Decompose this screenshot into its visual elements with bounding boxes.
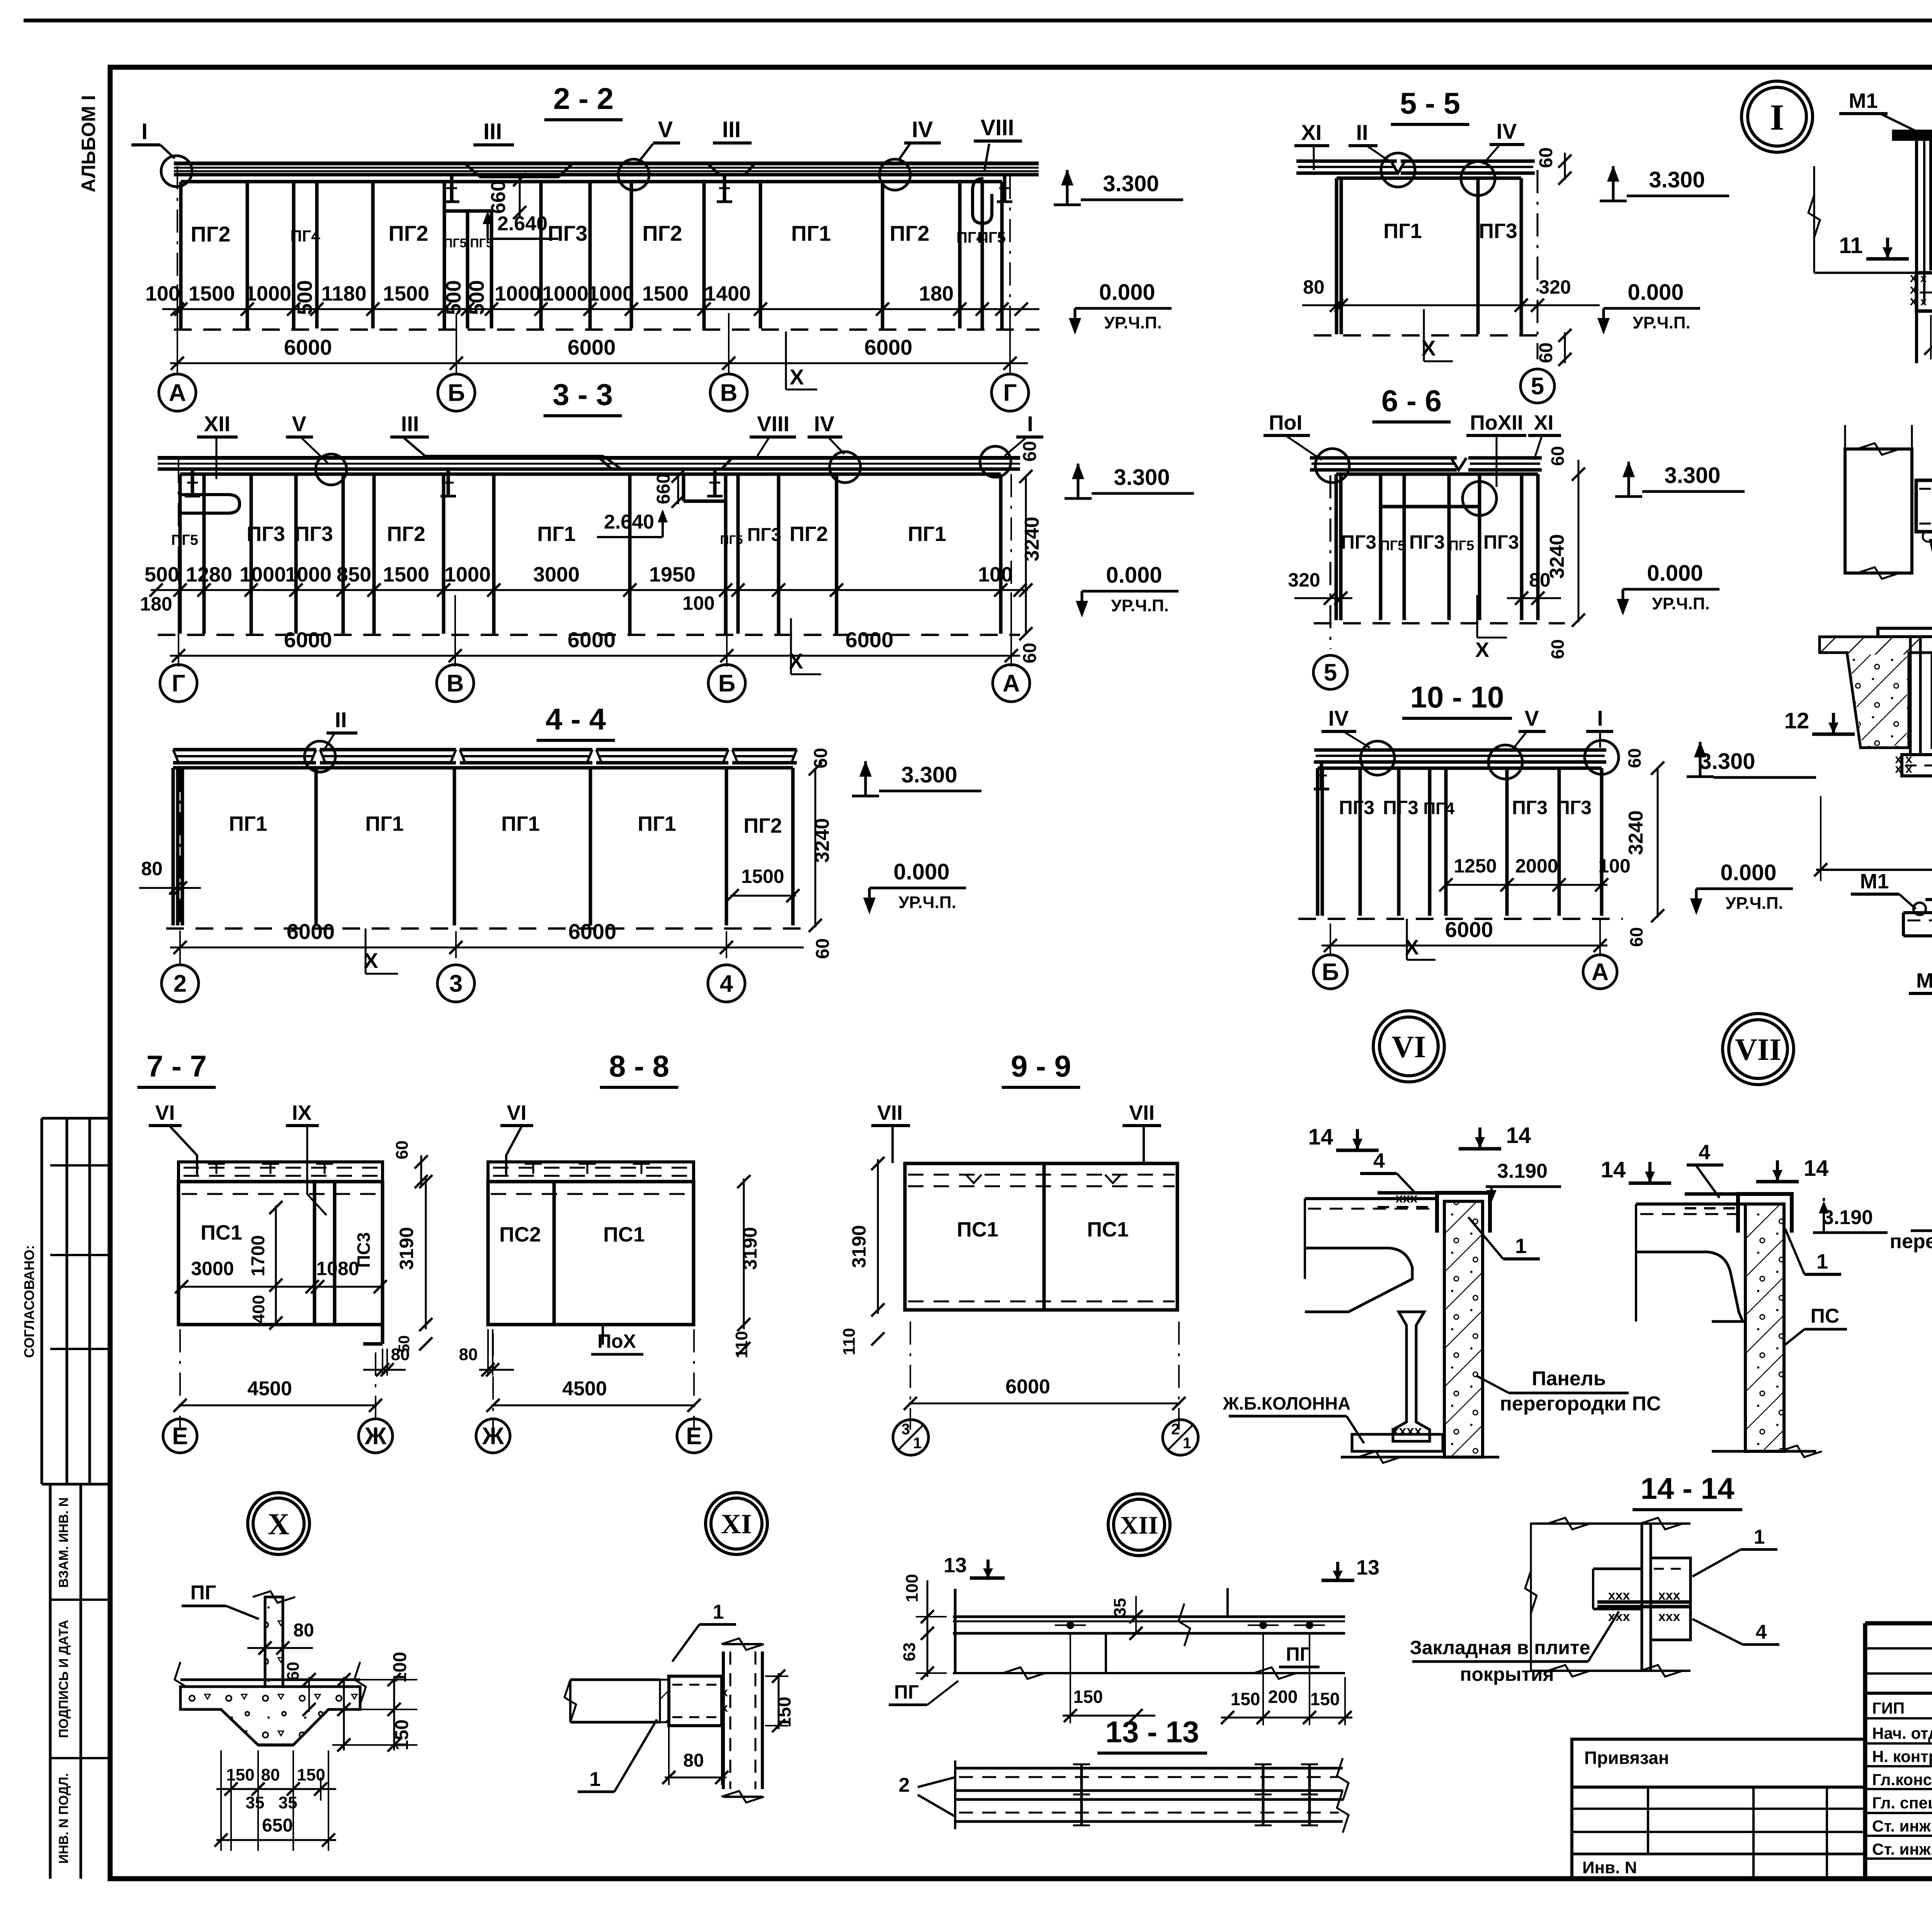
svg-text:x: x [1905,762,1912,776]
svg-text:ПГ3: ПГ3 [294,522,333,546]
svg-text:14: 14 [1506,1123,1531,1148]
svg-text:УР.Ч.П.: УР.Ч.П. [1633,313,1690,332]
svg-text:500: 500 [293,280,316,315]
section 10-10 floor dashed [1298,918,1623,920]
svg-text:9 - 9: 9 - 9 [1011,1049,1071,1083]
grid circle E [163,1419,197,1453]
section 3-3 grid dim line [170,655,1020,657]
svg-text:3000: 3000 [533,563,580,586]
detail III I-beam stem [1909,637,1912,755]
svg-text:XII: XII [204,412,230,436]
grid line G dash-dot [1009,176,1011,373]
svg-text:14 - 14: 14 - 14 [1641,1471,1735,1505]
svg-text:400: 400 [249,1295,268,1323]
detail I level line 3.240 [1814,272,1932,274]
detail X concrete bed [180,1687,360,1745]
svg-text:ПГ2: ПГ2 [743,814,782,837]
svg-text:35: 35 [279,1793,298,1812]
svg-text:100: 100 [390,1652,410,1683]
section 2-2 grid dimension line [170,362,1028,364]
svg-text:2: 2 [173,971,187,997]
detail VI top channel cap [1437,1193,1490,1233]
svg-text:М1: М1 [1849,89,1878,112]
section 6-6 roof beam [1310,456,1457,460]
svg-text:VI: VI [507,1101,526,1124]
svg-text:1000: 1000 [285,563,332,586]
section 3-3 door lintel right [684,500,726,503]
svg-text:ПС1: ПС1 [1087,1218,1129,1241]
svg-text:2000: 2000 [1515,855,1558,877]
svg-text:4500: 4500 [247,1378,292,1400]
svg-text:660: 660 [487,180,510,214]
grid circle V [437,665,474,702]
svg-text:xxx: xxx [1608,1588,1630,1603]
svg-text:13: 13 [944,1554,967,1577]
svg-text:ПГ4: ПГ4 [290,227,320,245]
svg-text:2: 2 [1171,1421,1180,1438]
svg-text:А: А [1592,959,1609,986]
callout circle V [618,159,649,190]
svg-text:0.000: 0.000 [1720,860,1776,885]
node X callout 3-3 [790,618,792,674]
svg-text:М1: М1 [1860,870,1889,893]
grid line 2 dash-dot [179,769,181,964]
detail I panel PG below [1917,273,1932,311]
svg-text:4: 4 [1756,1621,1767,1643]
svg-text:4500: 4500 [562,1378,607,1400]
svg-text:3.300: 3.300 [1649,167,1705,192]
svg-text:100: 100 [1598,855,1630,877]
svg-text:III: III [401,412,419,436]
svg-text:4 - 4: 4 - 4 [546,702,606,736]
detail III dims 1100 80 [1816,869,1932,871]
detail VI bottom line [1341,1456,1499,1459]
svg-text:5: 5 [1324,660,1337,686]
grid circle E [677,1419,711,1453]
svg-text:I: I [1770,97,1784,138]
svg-text:6000: 6000 [568,335,616,359]
svg-text:ПС1: ПС1 [603,1223,645,1246]
svg-text:ПГ3: ПГ3 [1512,797,1548,818]
svg-text:ПГ1: ПГ1 [365,812,403,835]
grid circle 4 [708,965,745,1002]
grid circle G [160,665,197,702]
svg-text:6000: 6000 [1445,917,1493,942]
svg-text:35: 35 [1111,1598,1129,1617]
svg-text:110: 110 [840,1328,859,1355]
svg-text:6000: 6000 [287,919,335,944]
svg-text:6000: 6000 [568,919,617,944]
svg-text:IV: IV [814,412,835,436]
section 3-3 left hook detail [182,495,240,513]
svg-text:5 - 5: 5 - 5 [1400,86,1460,120]
grid line A dash-dot [177,166,178,373]
detail VI rail column [1393,1312,1430,1441]
svg-text:Ст. инж.: Ст. инж. [1872,1840,1932,1858]
12-12 plate MN1 plan [1903,911,1932,914]
detail I left dim line [1813,166,1815,273]
detail XII beam plan [953,1616,1345,1618]
svg-text:1: 1 [590,1768,601,1791]
svg-text:ПГ5: ПГ5 [1449,537,1474,553]
svg-text:13 - 13: 13 - 13 [1105,1715,1199,1749]
svg-text:МН1: МН1 [1916,969,1932,992]
svg-text:6000: 6000 [864,335,913,359]
grid circle A [1583,955,1617,989]
svg-text:ПГ1: ПГ1 [638,812,676,835]
svg-text:14: 14 [1308,1124,1333,1150]
svg-text:ПГ2: ПГ2 [789,522,828,546]
section 2-2 door panels PG5 [466,211,469,328]
svg-text:III: III [722,117,741,142]
title block outer [1865,1621,1932,1626]
svg-text:xxx: xxx [1658,1588,1680,1603]
svg-text:ПГ5: ПГ5 [1380,537,1405,553]
svg-text:Ж: Ж [364,1423,387,1450]
svg-text:1: 1 [1754,1526,1765,1548]
svg-text:60: 60 [1548,446,1568,466]
svg-text:60: 60 [284,1662,303,1681]
svg-text:УР.Ч.П.: УР.Ч.П. [1111,596,1168,615]
svg-text:X: X [789,365,804,389]
svg-text:I: I [141,119,148,144]
grid circle Zh [359,1419,393,1453]
svg-text:660: 660 [653,473,674,504]
svg-text:XI: XI [1534,411,1553,434]
svg-text:x: x [1895,762,1902,776]
svg-text:1000: 1000 [542,282,588,305]
section 2-2 panels [181,180,1002,184]
svg-text:180: 180 [919,282,954,305]
svg-text:60: 60 [1536,147,1556,168]
svg-text:X: X [789,649,803,673]
svg-text:УР.Ч.П.: УР.Ч.П. [898,893,956,912]
svg-text:60: 60 [1020,643,1040,663]
svg-text:IV: IV [1328,706,1349,730]
svg-text:1000: 1000 [245,282,291,305]
svg-text:III: III [483,119,502,144]
svg-text:x: x [1910,294,1917,308]
svg-text:ПГ3: ПГ3 [1479,219,1517,243]
svg-text:10 - 10: 10 - 10 [1410,680,1504,714]
svg-text:60: 60 [1626,927,1646,947]
section 2-2 hangers [450,175,454,202]
svg-text:А: А [1003,670,1020,697]
8-8 panels PS2 PS1 [488,1182,694,1325]
10-10 hanger left [1320,762,1323,789]
svg-text:ПГ1: ПГ1 [537,522,575,546]
svg-text:ПГ5: ПГ5 [171,532,198,548]
detail circle VI [1373,1011,1444,1082]
svg-text:1250: 1250 [1454,855,1497,877]
svg-text:XI: XI [1301,120,1322,145]
svg-text:500: 500 [145,563,179,586]
5-5 grid line and circle 5 [1537,170,1539,359]
section 3-3 ceiling beam [158,456,1020,460]
svg-text:xxx: xxx [1658,1609,1680,1624]
svg-text:3190: 3190 [848,1225,870,1268]
detail III ribs concrete [1849,655,1907,746]
node X callout 10-10 [1406,919,1408,960]
svg-text:2.640: 2.640 [604,511,654,533]
svg-text:ПГ2: ПГ2 [387,522,425,546]
svg-text:1180: 1180 [321,282,366,305]
sheet top trim line [24,19,1932,22]
svg-text:6000: 6000 [568,628,616,652]
svg-text:ГИП: ГИП [1872,1699,1905,1717]
svg-text:x: x [1920,272,1927,285]
section 3-3 panels [180,473,1001,476]
svg-text:7 - 7: 7 - 7 [146,1049,207,1083]
section 4-4 grid dim line [170,947,804,949]
detail VI top angle [1378,1191,1437,1195]
svg-text:1500: 1500 [383,282,429,305]
svg-text:13: 13 [1356,1556,1379,1579]
grid line G dash-dot 3-3 [178,460,179,663]
svg-text:ПоXII: ПоXII [1470,411,1523,434]
svg-text:Инв. N: Инв. N [1582,1858,1637,1877]
svg-text:180: 180 [140,593,172,615]
detail VI slab and beam [1305,1197,1439,1200]
node X callout 6-6 [1476,595,1478,638]
svg-text:Закладная в плите: Закладная в плите [1410,1637,1590,1658]
11-11 panel plan [1916,480,1932,532]
svg-text:ПГ3: ПГ3 [1556,797,1592,818]
svg-text:Гл. спец.: Гл. спец. [1872,1794,1932,1812]
7-7 roof slab strip [179,1162,383,1182]
svg-text:4: 4 [1699,1141,1710,1164]
svg-text:80: 80 [459,1345,478,1364]
9-9 span dim [909,1403,1180,1405]
svg-text:xxxx: xxxx [1391,1423,1422,1439]
detail VI panel hatched [1444,1201,1483,1457]
svg-text:650: 650 [262,1815,293,1836]
7-7 span dim [179,1405,377,1406]
svg-text:80: 80 [293,1620,314,1641]
detail circle X [248,1493,310,1554]
svg-text:Б: Б [718,670,736,697]
svg-text:0.000: 0.000 [1628,280,1684,305]
svg-text:3240: 3240 [1625,810,1647,855]
svg-text:I: I [1597,706,1603,730]
svg-text:V: V [1524,706,1539,730]
detail XI center block [669,1676,722,1726]
svg-text:УР.Ч.П.: УР.Ч.П. [1104,313,1162,332]
grid circle Zh [476,1419,510,1453]
svg-text:850: 850 [337,563,371,586]
svg-text:6 - 6: 6 - 6 [1381,384,1442,418]
svg-text:x: x [1920,295,1927,308]
svg-text:500: 500 [465,280,488,315]
svg-text:3: 3 [901,1421,910,1438]
detail X floor slab [180,1679,360,1681]
svg-text:4: 4 [720,971,733,997]
svg-text:60: 60 [1020,441,1040,461]
svg-text:ПГ2: ПГ2 [889,221,929,245]
svg-text:3000: 3000 [191,1258,234,1279]
svg-text:0.000: 0.000 [1647,561,1703,586]
callout circle I [161,156,192,187]
grid line A dash-dot 3-3 [1010,474,1012,663]
section 3-3 floor dashed [158,634,1020,636]
svg-text:2.640: 2.640 [497,213,548,235]
svg-text:VII: VII [877,1101,903,1124]
approval table [42,1117,110,1120]
svg-text:X: X [268,1507,289,1541]
detail X bottom dims [216,1788,336,1790]
svg-text:80: 80 [141,858,163,879]
svg-text:II: II [1356,120,1368,145]
svg-text:60: 60 [393,1141,412,1160]
detail III top plate [1878,628,1932,637]
svg-text:3: 3 [449,971,463,997]
svg-text:ПГ2: ПГ2 [190,222,230,246]
svg-text:1700: 1700 [248,1235,269,1277]
svg-text:УР.Ч.П.: УР.Ч.П. [1725,894,1783,913]
svg-text:IV: IV [1497,119,1517,143]
svg-text:VI: VI [1392,1030,1426,1064]
svg-text:Г: Г [172,670,185,697]
detail XI vertical panel [722,1651,725,1789]
svg-text:60: 60 [1536,342,1556,363]
7-7 panel PS1 PS3 [179,1182,383,1325]
14-14 left panel [1593,1568,1642,1570]
grid circle G [992,374,1029,411]
section 5-5 panels [1337,177,1521,180]
svg-text:6000: 6000 [845,628,894,652]
svg-text:200: 200 [1268,1687,1298,1707]
13-13 planks [955,1767,1343,1770]
14-14 vertical panel [1641,1524,1643,1671]
svg-text:СОГЛАСОВАНО:: СОГЛАСОВАНО: [21,1245,37,1358]
svg-text:1500: 1500 [642,282,689,305]
svg-text:перегородки ПГ: перегородки ПГ [1890,1230,1932,1253]
section 6-6 panels [1336,473,1538,476]
title block personnel rows [1865,1717,1932,1719]
svg-text:0.000: 0.000 [1106,563,1162,588]
title block top rows [1865,1647,1932,1650]
10-10 grid dim [1321,945,1607,947]
svg-text:3.300: 3.300 [1114,465,1170,490]
svg-text:1080: 1080 [316,1258,359,1279]
svg-text:3.300: 3.300 [1664,463,1720,488]
svg-text:ПГ3: ПГ3 [747,525,781,545]
svg-text:ПГ3: ПГ3 [548,221,587,245]
svg-text:ПГ5: ПГ5 [444,236,467,250]
svg-text:2 - 2: 2 - 2 [553,82,614,116]
svg-text:3240: 3240 [1021,517,1043,561]
svg-text:150: 150 [1310,1689,1340,1709]
svg-text:ПГ3: ПГ3 [1409,531,1445,553]
svg-text:60: 60 [811,748,831,768]
svg-text:320: 320 [1539,276,1571,298]
svg-text:Привязан: Привязан [1584,1748,1669,1768]
svg-text:VII: VII [1129,1101,1155,1124]
svg-text:ПГ1: ПГ1 [1383,219,1422,243]
svg-text:Е: Е [172,1423,188,1450]
svg-text:ПС2: ПС2 [499,1223,541,1246]
svg-text:ПГ: ПГ [894,1681,919,1703]
svg-text:VI: VI [155,1101,175,1124]
svg-text:5: 5 [1531,373,1544,400]
detail XI weld strip [660,1680,669,1722]
14-14 bottom line [1530,1670,1690,1672]
svg-text:ПГ: ПГ [1286,1643,1311,1665]
privyazan box [1572,1739,1865,1879]
svg-text:0.000: 0.000 [893,859,949,884]
svg-text:1500: 1500 [189,282,235,305]
svg-text:1: 1 [1183,1435,1191,1452]
svg-text:320: 320 [1288,569,1320,591]
svg-text:УР.Ч.П.: УР.Ч.П. [1652,594,1709,613]
svg-text:1: 1 [1816,1250,1828,1273]
detail VI base plate [1352,1434,1443,1451]
svg-text:ПГ5: ПГ5 [470,236,493,250]
section 10-10 panels [1318,767,1602,770]
node X callout [785,332,787,389]
section 4-4 panels [173,766,793,770]
svg-text:3190: 3190 [396,1227,417,1270]
detail III slab hatched [1820,637,1932,748]
svg-text:ПГ2: ПГ2 [388,221,428,245]
svg-text:Н. контр.: Н. контр. [1872,1747,1932,1765]
detail X right dims [343,1677,345,1750]
node X callout 5-5 [1423,309,1425,340]
svg-text:80: 80 [391,1345,410,1364]
svg-text:ПГ3: ПГ3 [1483,531,1519,553]
svg-text:ПГ3: ПГ3 [247,522,285,546]
svg-text:VIII: VIII [980,115,1014,140]
grid circle B [708,665,745,702]
svg-text:ПГ1: ПГ1 [229,812,267,835]
svg-text:ВЗАМ. ИНВ. N: ВЗАМ. ИНВ. N [56,1497,71,1588]
11-11 column [1845,449,1912,573]
grid circle V [710,374,747,411]
svg-text:1500: 1500 [741,866,784,887]
detail VII slab [1636,1202,1745,1206]
grid circle 3 [437,965,474,1002]
svg-text:1000: 1000 [444,563,491,586]
svg-text:X: X [1405,936,1419,959]
svg-text:1280: 1280 [186,563,232,586]
14-14 right panel [1651,1558,1690,1640]
svg-text:14: 14 [1804,1156,1829,1181]
section 5-5 floor dashed [1314,334,1542,337]
svg-text:ПоX: ПоX [597,1330,636,1352]
svg-text:1000: 1000 [240,563,286,586]
8-8 PoX callout [602,1325,604,1345]
detail VII top angle [1685,1192,1738,1196]
detail circle XII [1108,1494,1170,1556]
detail XI horizontal bar [570,1679,660,1681]
detail circle VII [1723,1014,1794,1085]
svg-text:0.000: 0.000 [1099,280,1155,305]
svg-text:АЛЬБОМ I: АЛЬБОМ I [78,95,99,192]
svg-text:ПС1: ПС1 [201,1221,242,1244]
svg-text:II: II [335,707,347,732]
section 2-2 dimension line [162,308,1039,310]
section 2-2 floor dashed line [174,328,1039,331]
9-9 panels [905,1163,1177,1310]
svg-text:150: 150 [1073,1687,1103,1707]
svg-text:Панель: Панель [1532,1367,1606,1390]
svg-text:1000: 1000 [588,282,634,305]
detail VII bottom [1712,1450,1816,1453]
svg-text:ПГ3: ПГ3 [1339,797,1374,818]
svg-text:11: 11 [1839,233,1862,258]
svg-text:80: 80 [1303,276,1325,298]
section 3-3 hangers [191,469,194,496]
